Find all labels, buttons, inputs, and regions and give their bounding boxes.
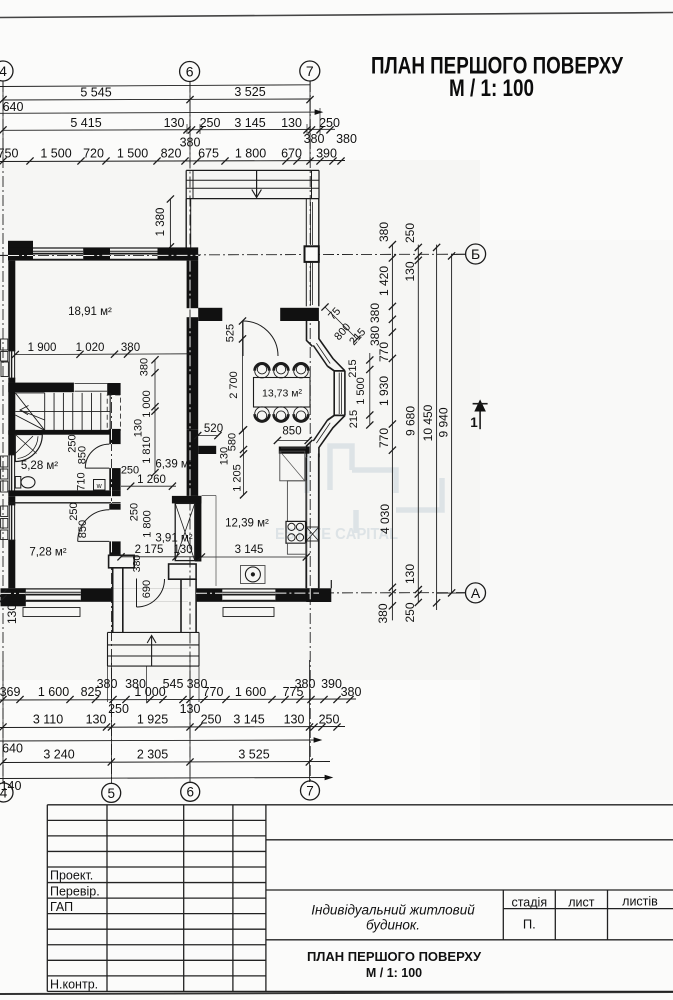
svg-text:380: 380: [304, 132, 325, 146]
svg-text:820: 820: [161, 147, 182, 161]
svg-text:770: 770: [377, 428, 391, 448]
svg-text:1 600: 1 600: [38, 685, 69, 699]
svg-text:640: 640: [3, 100, 24, 114]
svg-text:12,39 м²: 12,39 м²: [225, 518, 269, 530]
svg-text:140: 140: [1, 779, 22, 793]
svg-text:6: 6: [186, 64, 194, 80]
svg-text:130: 130: [219, 447, 231, 465]
svg-text:675: 675: [198, 147, 219, 161]
svg-text:будинок.: будинок.: [366, 918, 420, 933]
svg-text:Б: Б: [471, 246, 480, 262]
svg-text:М / 1: 100: М / 1: 100: [449, 75, 534, 102]
svg-text:380: 380: [131, 555, 143, 573]
svg-text:3 240: 3 240: [43, 748, 74, 762]
svg-text:690: 690: [141, 580, 153, 598]
svg-text:Проект.: Проект.: [50, 869, 93, 883]
svg-text:1 810: 1 810: [141, 436, 153, 464]
svg-text:3,91 м²: 3,91 м²: [155, 533, 192, 545]
svg-text:130: 130: [403, 564, 417, 584]
svg-text:850: 850: [282, 426, 301, 438]
svg-text:1 800: 1 800: [142, 510, 154, 538]
svg-text:380: 380: [97, 677, 118, 691]
svg-text:4 030: 4 030: [378, 504, 392, 534]
svg-text:ГАП: ГАП: [50, 900, 73, 914]
svg-text:1 420: 1 420: [377, 266, 391, 296]
svg-text:1 500: 1 500: [117, 147, 148, 161]
svg-text:стадія: стадія: [511, 896, 547, 910]
svg-text:850: 850: [77, 446, 89, 464]
svg-text:3 525: 3 525: [238, 748, 269, 762]
svg-text:1 900: 1 900: [28, 342, 57, 354]
svg-text:250: 250: [129, 503, 141, 521]
svg-text:7,28 м²: 7,28 м²: [29, 547, 66, 559]
svg-text:1 800: 1 800: [235, 147, 266, 161]
svg-text:w: w: [96, 483, 103, 490]
svg-text:1 020: 1 020: [76, 342, 105, 354]
svg-text:390: 390: [321, 677, 342, 691]
svg-text:250: 250: [319, 713, 340, 727]
svg-text:250: 250: [403, 602, 417, 622]
svg-text:9 680: 9 680: [404, 406, 418, 436]
svg-text:130: 130: [403, 261, 417, 281]
svg-text:9 940: 9 940: [437, 407, 451, 437]
svg-text:2 175: 2 175: [135, 544, 164, 556]
svg-text:770: 770: [377, 342, 391, 362]
svg-text:3 145: 3 145: [235, 544, 264, 556]
svg-text:5 545: 5 545: [80, 86, 111, 100]
svg-text:Н.контр.: Н.контр.: [50, 977, 98, 991]
svg-text:250: 250: [201, 713, 222, 727]
svg-text:1 930: 1 930: [377, 376, 391, 406]
svg-text:215: 215: [348, 410, 360, 428]
svg-text:710: 710: [76, 472, 88, 490]
svg-text:380: 380: [295, 677, 316, 691]
svg-text:4: 4: [0, 63, 7, 79]
svg-text:380: 380: [341, 685, 362, 699]
svg-text:6: 6: [186, 785, 194, 800]
svg-text:380: 380: [139, 358, 151, 376]
svg-text:380: 380: [336, 132, 357, 146]
svg-text:850: 850: [77, 520, 89, 538]
svg-text:380: 380: [125, 677, 146, 691]
svg-text:380: 380: [377, 222, 391, 242]
svg-text:ПЛАН ПЕРШОГО ПОВЕРХУ: ПЛАН ПЕРШОГО ПОВЕРХУ: [307, 949, 482, 964]
svg-text:листів: листів: [622, 895, 658, 909]
svg-text:М / 1: 100: М / 1: 100: [366, 966, 422, 980]
svg-text:130: 130: [133, 419, 145, 437]
svg-text:250: 250: [68, 502, 80, 520]
svg-text:250: 250: [403, 223, 417, 243]
svg-text:130: 130: [284, 713, 305, 727]
svg-text:1 260: 1 260: [137, 474, 166, 486]
svg-text:2 305: 2 305: [137, 748, 168, 762]
svg-text:3 145: 3 145: [234, 116, 265, 130]
svg-text:545: 545: [163, 677, 184, 691]
svg-text:1 925: 1 925: [137, 713, 168, 727]
svg-text:1 205: 1 205: [232, 464, 244, 492]
svg-text:7: 7: [306, 63, 314, 79]
svg-text:Індивідуальний житловий: Індивідуальний житловий: [311, 903, 475, 918]
svg-text:Перевір.: Перевір.: [50, 884, 100, 898]
svg-text:2 700: 2 700: [228, 371, 240, 399]
svg-text:3 145: 3 145: [233, 713, 264, 727]
svg-text:6,39 м²: 6,39 м²: [155, 459, 192, 471]
svg-text:380: 380: [368, 303, 382, 323]
svg-text:130: 130: [164, 116, 185, 130]
svg-text:380: 380: [121, 342, 140, 354]
svg-text:1 380: 1 380: [155, 208, 167, 237]
svg-text:380: 380: [376, 603, 390, 623]
svg-text:130: 130: [5, 604, 19, 624]
svg-text:5,28 м²: 5,28 м²: [21, 460, 58, 472]
svg-text:5: 5: [107, 786, 115, 801]
svg-text:3 110: 3 110: [33, 713, 63, 727]
svg-text:7: 7: [306, 783, 314, 798]
svg-text:13,73 м²: 13,73 м²: [262, 388, 302, 400]
svg-text:215: 215: [347, 359, 359, 377]
svg-text:250: 250: [200, 116, 221, 130]
svg-text:390: 390: [316, 147, 337, 161]
svg-text:250: 250: [319, 116, 340, 130]
svg-text:лист: лист: [568, 896, 595, 910]
svg-text:18,91 м²: 18,91 м²: [68, 306, 112, 318]
svg-text:1 500: 1 500: [355, 377, 367, 405]
svg-text:130: 130: [173, 544, 192, 556]
svg-text:130: 130: [86, 713, 107, 727]
svg-text:130: 130: [281, 116, 302, 130]
svg-text:А: А: [471, 585, 481, 601]
svg-text:670: 670: [281, 147, 302, 161]
svg-text:1 500: 1 500: [40, 147, 71, 161]
svg-text:525: 525: [225, 324, 237, 342]
svg-text:1 600: 1 600: [235, 685, 266, 699]
svg-text:1 000: 1 000: [141, 390, 153, 418]
svg-text:640: 640: [2, 742, 23, 756]
svg-text:1: 1: [470, 415, 478, 430]
svg-text:10 450: 10 450: [421, 404, 435, 441]
svg-text:П.: П.: [523, 917, 536, 932]
svg-text:5 415: 5 415: [70, 116, 101, 130]
svg-text:3 525: 3 525: [234, 85, 265, 99]
svg-text:720: 720: [83, 147, 104, 161]
